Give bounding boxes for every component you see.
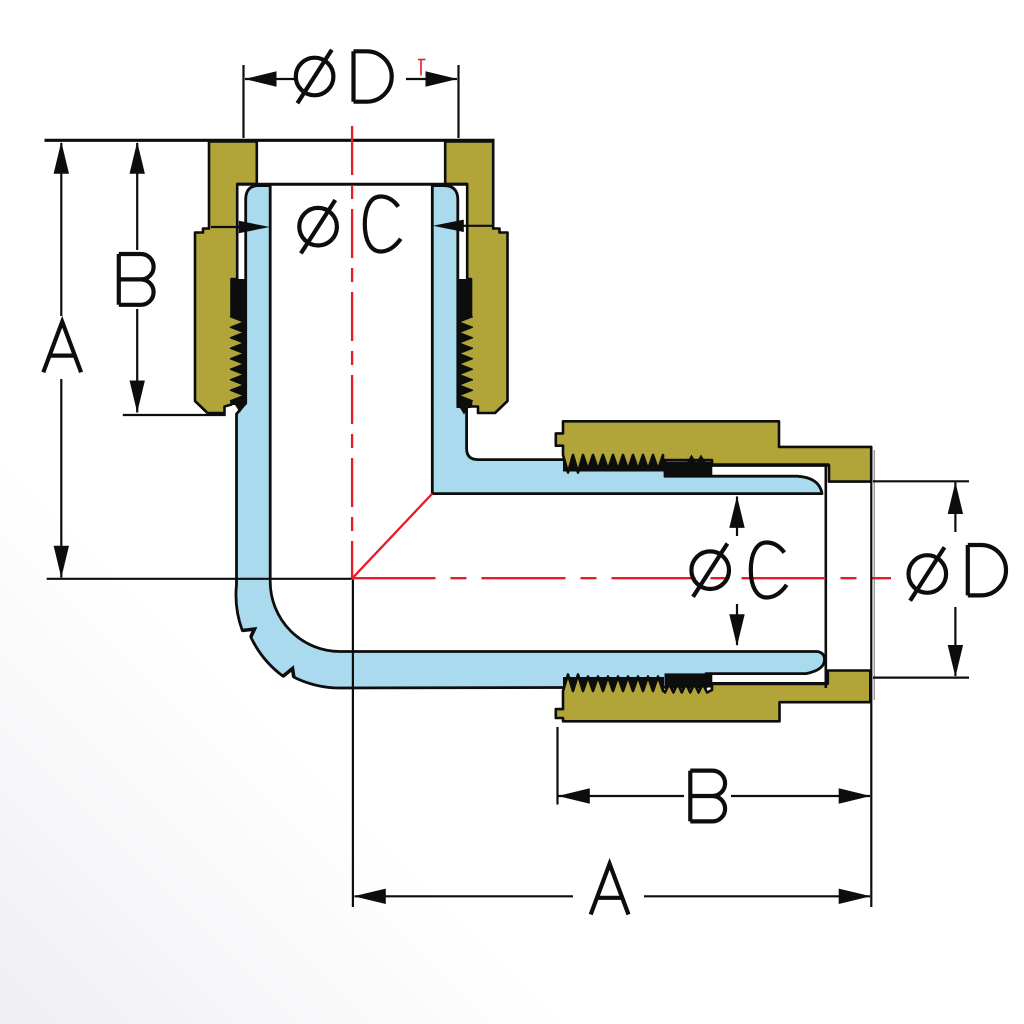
thread zone backing, horizontal-bottom xyxy=(563,677,664,692)
collet teeth, vertical left xyxy=(230,317,244,328)
dimension OD right: extension lines xyxy=(873,480,969,482)
label B bottom xyxy=(690,771,725,822)
brass nut, vertical leg right xyxy=(445,142,507,414)
dimension OD right: line and arrows xyxy=(954,483,956,533)
label B left xyxy=(119,254,154,305)
dimension B left: line xyxy=(136,143,138,250)
label A left xyxy=(43,322,81,373)
thread end wedge, vertical left xyxy=(233,402,246,413)
fitting body: vertical-leg right wall, corner block, horizontal-leg top wall xyxy=(432,186,822,494)
label OC right xyxy=(691,551,729,589)
label OD right xyxy=(909,555,947,593)
fitting body: vertical-leg left wall, elbow bend, horizontal-leg bottom wall xyxy=(236,186,825,688)
horizontal centerline xyxy=(352,577,892,579)
vertical centerline xyxy=(351,126,353,579)
dimension OC right: line and arrows xyxy=(736,497,738,537)
collet teeth, vertical right xyxy=(459,317,473,328)
extension line left of A bottom xyxy=(352,580,354,908)
label OC top xyxy=(299,208,337,246)
label A bottom xyxy=(591,864,629,915)
extension line bottom of A left xyxy=(47,578,352,580)
brass nut, horizontal leg top xyxy=(556,421,871,481)
heavy channel floor lines xyxy=(712,463,829,467)
grab ring strip, vertical left xyxy=(232,279,246,405)
grab ring, horizontal top xyxy=(665,462,713,476)
top entry face line xyxy=(45,139,495,142)
dimension OD top: extension lines xyxy=(242,65,244,138)
extension line left of B bottom xyxy=(556,727,558,805)
label OD top xyxy=(296,58,334,96)
extension line right, tube entry face xyxy=(870,446,872,907)
shoulder line, vertical leg xyxy=(237,183,467,186)
thread end wedge, vertical right xyxy=(458,404,472,415)
extension line bottom of B left xyxy=(123,414,226,416)
diagonal centerline to bore corner xyxy=(352,494,433,579)
dimension OD top: line and arrows xyxy=(245,78,295,80)
notch marks on outer bend xyxy=(283,669,294,678)
soft double line at tube entry xyxy=(873,450,875,700)
dimension A left: line xyxy=(60,143,62,316)
stray red tick xyxy=(420,59,422,76)
thread zone backing, horizontal-top xyxy=(563,452,664,472)
brass nut, horizontal leg bottom xyxy=(556,671,871,722)
brass nut, vertical leg left xyxy=(195,142,257,414)
grab ring, horizontal bottom xyxy=(665,673,713,687)
dimension A bottom: line and arrows xyxy=(355,895,574,897)
dimension B bottom: line and arrows xyxy=(559,795,685,797)
grab ring strip, vertical right xyxy=(457,279,472,408)
tube stop face inside horizontal leg xyxy=(824,465,827,688)
dimension OC top: leaders and arrows xyxy=(211,226,243,228)
